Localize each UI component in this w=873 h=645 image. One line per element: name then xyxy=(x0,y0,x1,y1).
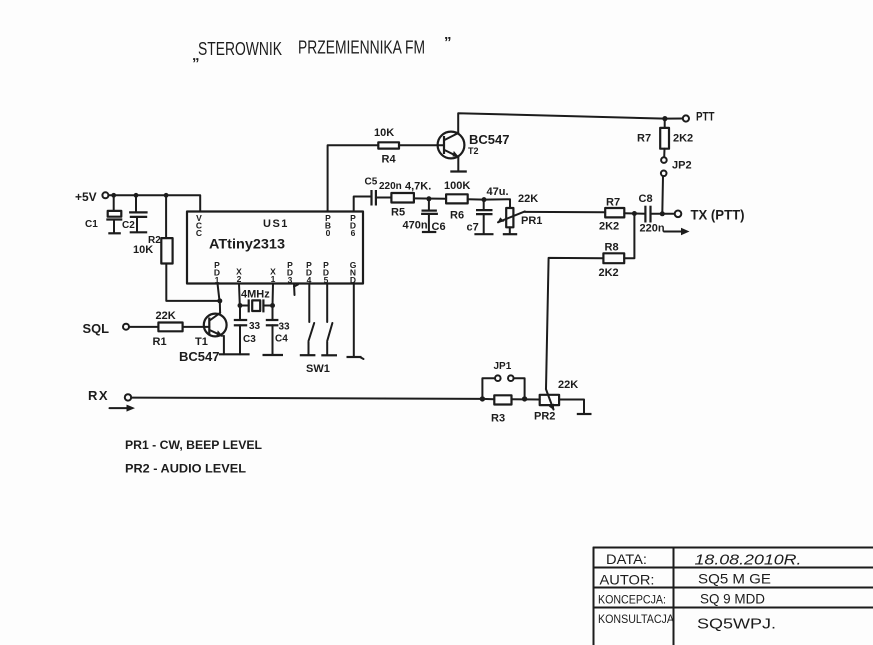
resistor R2 xyxy=(161,238,172,263)
svg-text:TX (PTT): TX (PTT) xyxy=(691,207,745,223)
potentiometer PR2 xyxy=(540,389,559,410)
arrow TX direction xyxy=(664,228,690,235)
svg-text:C8: C8 xyxy=(639,193,653,205)
svg-text:SQ 9 MDD: SQ 9 MDD xyxy=(700,591,765,607)
resistor R5 xyxy=(391,193,414,203)
svg-text:PR2 - AUDIO LEVEL: PR2 - AUDIO LEVEL xyxy=(125,462,246,476)
resistor R8 xyxy=(603,253,624,263)
svg-text:6: 6 xyxy=(351,228,356,238)
svg-text:C4: C4 xyxy=(275,334,288,345)
+5V terminal xyxy=(102,192,108,198)
resistor R7 vertical xyxy=(660,128,669,149)
wire C7 top xyxy=(483,200,485,210)
wire R7v bottom to JP2 xyxy=(663,149,665,158)
svg-text:US1: US1 xyxy=(263,218,289,230)
resistor R7 horizontal xyxy=(605,208,624,217)
svg-text:”: ” xyxy=(444,34,452,51)
wire T2 collector up to PTT rail xyxy=(458,113,665,133)
svg-text:c7: c7 xyxy=(467,222,479,234)
pin X2 xyxy=(236,267,242,285)
svg-text:ATtiny2313: ATtiny2313 xyxy=(209,237,286,252)
wire C4 top xyxy=(272,306,274,320)
wire R4 to T2 base xyxy=(399,144,444,146)
capacitor C3 xyxy=(234,320,247,354)
wire RX line xyxy=(131,398,482,399)
node RX/R3/JP1 left xyxy=(480,396,485,401)
wire +5V rail xyxy=(109,195,201,211)
svg-text:C6: C6 xyxy=(432,221,446,233)
wire X2 down xyxy=(238,284,241,306)
wire PB0 to R4 xyxy=(328,145,379,211)
wire to PTT terminal xyxy=(665,118,683,120)
svg-text:RX: RX xyxy=(88,388,109,403)
wire PR1 wiper to R7h xyxy=(525,211,605,213)
svg-text:C5: C5 xyxy=(365,177,378,188)
svg-text:100K: 100K xyxy=(444,180,470,192)
svg-text:2K2: 2K2 xyxy=(599,267,619,279)
ground C7 xyxy=(474,233,493,235)
svg-text:KONCEPCJA:: KONCEPCJA: xyxy=(598,595,666,607)
svg-text:C: C xyxy=(196,228,202,238)
svg-text:4MHz: 4MHz xyxy=(241,289,270,301)
wire T2 emitter to ground xyxy=(457,157,459,172)
svg-text:C2: C2 xyxy=(122,220,135,231)
svg-text:22K: 22K xyxy=(518,193,538,205)
pin PD4 xyxy=(306,260,312,285)
terminal PTT xyxy=(683,115,689,121)
node X2/crystal/C3 xyxy=(238,303,243,308)
svg-text:SQ5WPJ.: SQ5WPJ. xyxy=(697,617,776,633)
node +5V/C1 xyxy=(111,193,116,198)
wire C3 top xyxy=(239,306,241,320)
svg-text:4,7K.: 4,7K. xyxy=(405,181,431,193)
ground C4 xyxy=(263,354,284,356)
capacitor C6 xyxy=(421,211,438,231)
svg-text:BC547: BC547 xyxy=(179,349,219,364)
wire PD3 stub xyxy=(294,284,298,296)
svg-text:R8: R8 xyxy=(605,242,619,254)
svg-text:PRZEMIENNIKA FM: PRZEMIENNIKA FM xyxy=(298,38,425,58)
svg-text:SQL: SQL xyxy=(83,321,110,336)
svg-text:470n: 470n xyxy=(403,220,428,232)
transistor T2 xyxy=(438,132,465,159)
node +5V/C2 xyxy=(134,193,139,198)
svg-text:3: 3 xyxy=(288,275,293,285)
wire R8 to TX node xyxy=(624,214,634,259)
svg-text:R4: R4 xyxy=(382,154,397,166)
node R7h/R8/C8 xyxy=(632,211,637,216)
svg-text:PR1: PR1 xyxy=(521,215,542,227)
svg-text:JP2: JP2 xyxy=(672,160,692,172)
wire R8 left to PR2 wiper xyxy=(546,258,603,389)
svg-text:18.08.2010R.: 18.08.2010R. xyxy=(695,552,802,569)
wire R5 to node1 xyxy=(414,197,446,199)
jumper JP1 xyxy=(482,375,524,398)
terminal TX xyxy=(675,211,682,218)
pin PB0 xyxy=(325,213,331,238)
svg-text:33: 33 xyxy=(279,322,291,333)
ground T2 xyxy=(450,170,467,172)
svg-text:22K: 22K xyxy=(558,379,578,391)
wire R1 to T1 base xyxy=(183,326,210,328)
ground T1/C3 xyxy=(219,353,250,355)
svg-text:JP1: JP1 xyxy=(494,361,512,372)
ground C2 xyxy=(130,231,148,233)
svg-text:2K2: 2K2 xyxy=(673,133,693,145)
svg-text:R7: R7 xyxy=(606,197,620,209)
crystal Q1 4MHz xyxy=(240,299,273,312)
resistor R6 xyxy=(446,194,468,203)
svg-text:T1: T1 xyxy=(195,336,208,348)
ground PR1 xyxy=(503,233,517,235)
svg-text:1: 1 xyxy=(271,274,276,284)
node X1/crystal/C4 xyxy=(270,303,275,308)
wire R2 top xyxy=(165,195,167,238)
resistor R1 xyxy=(158,323,182,332)
svg-text:0: 0 xyxy=(326,228,331,238)
node +5V/R2 xyxy=(164,193,169,198)
svg-text:10K: 10K xyxy=(374,127,394,139)
wire R3 to PR2 xyxy=(512,398,540,400)
ground C1 xyxy=(108,232,121,234)
arrow RX direction xyxy=(110,405,136,412)
capacitor C2 xyxy=(129,212,148,231)
wire C1 top xyxy=(113,195,115,211)
ground SW1a xyxy=(300,354,316,356)
svg-text:T2: T2 xyxy=(468,146,479,156)
svg-text:R6: R6 xyxy=(450,210,464,222)
wire PD1 down xyxy=(218,284,220,301)
node R3/JP1 right xyxy=(522,396,527,401)
node T1 collector / PD1 xyxy=(217,298,222,303)
svg-text:SW1: SW1 xyxy=(306,363,330,375)
wire JP2 to TX node xyxy=(661,176,664,214)
svg-text:KONSULTACJA: KONSULTACJA xyxy=(598,614,674,626)
svg-text:2K2: 2K2 xyxy=(599,221,619,233)
svg-text:+5V: +5V xyxy=(75,190,97,204)
wire PD6 to C5 xyxy=(354,197,372,212)
svg-text:47u.: 47u. xyxy=(487,186,509,198)
wire R6 to node2 xyxy=(468,198,484,200)
switch SW1b xyxy=(327,284,332,355)
potentiometer PR1 xyxy=(498,208,525,233)
node TX/JP2 xyxy=(660,211,665,216)
capacitor C7 xyxy=(476,210,493,233)
svg-text:C1: C1 xyxy=(85,219,98,230)
ground GND pin xyxy=(347,357,364,359)
terminal RX xyxy=(125,394,131,400)
wire R7v top xyxy=(664,119,666,128)
svg-text:STEROWNIK: STEROWNIK xyxy=(198,39,282,59)
pin VCC xyxy=(196,213,202,238)
wire C8 to TX terminal xyxy=(651,213,675,215)
wire R2 bottom to T1 collector node xyxy=(166,264,219,301)
pin PD1 xyxy=(214,260,220,285)
pin PD5 xyxy=(323,260,329,285)
wire T1 emitter to ground xyxy=(223,336,225,354)
wire SQL to R1 xyxy=(129,326,158,328)
pin PD3 xyxy=(287,260,293,285)
wire RX node to R3 xyxy=(482,398,494,400)
svg-text:PR2: PR2 xyxy=(534,411,555,423)
wire GND pin down xyxy=(353,284,355,357)
svg-text:R1: R1 xyxy=(153,336,167,348)
svg-text:BC547: BC547 xyxy=(469,132,509,147)
svg-text:22K: 22K xyxy=(156,310,176,322)
title STEROWNIK PRZEMIENNIKA FM xyxy=(192,34,452,64)
svg-text:220n: 220n xyxy=(640,223,665,235)
svg-text:2: 2 xyxy=(237,274,242,284)
svg-text:DATA:: DATA: xyxy=(606,551,647,567)
svg-text:R7: R7 xyxy=(637,133,651,145)
ground SW1b xyxy=(321,354,337,356)
svg-text:R5: R5 xyxy=(391,207,405,219)
wire C6 top xyxy=(428,199,430,211)
node PTT junction xyxy=(662,116,667,121)
capacitor C8 xyxy=(645,206,650,223)
wire node2 to PR1 top xyxy=(484,199,510,208)
resistor R4 xyxy=(378,142,399,148)
node R6/C7/PR1 xyxy=(482,197,487,202)
jumper JP2 xyxy=(661,157,667,176)
pin GND xyxy=(350,260,357,285)
op IC U1 box xyxy=(187,212,363,284)
capacitor C1 xyxy=(106,211,122,233)
node R5/C6/R6 xyxy=(426,196,431,201)
svg-text:33: 33 xyxy=(249,321,261,332)
transistor T1 xyxy=(204,313,227,337)
capacitor C5 xyxy=(372,190,376,206)
svg-text:„: „ xyxy=(192,47,200,64)
resistor R3 xyxy=(494,395,511,404)
svg-text:220n: 220n xyxy=(379,181,402,192)
pin X1 xyxy=(270,267,276,285)
ground C6 xyxy=(422,231,436,233)
svg-text:AUTOR:: AUTOR: xyxy=(600,572,655,588)
capacitor C4 xyxy=(266,320,279,355)
wire C2 top xyxy=(135,195,137,212)
switch SW1a xyxy=(309,284,315,355)
svg-text:R3: R3 xyxy=(491,413,505,425)
svg-text:SQ5 M GE: SQ5 M GE xyxy=(698,571,771,587)
svg-text:C3: C3 xyxy=(243,334,256,345)
svg-text:10K: 10K xyxy=(133,244,153,256)
wire C5 to R5 xyxy=(376,197,392,199)
wire T1 collector xyxy=(219,301,221,313)
terminal SQL xyxy=(123,324,129,330)
table frame xyxy=(594,548,873,645)
ground PR2 xyxy=(577,413,592,415)
wire PR2 right to ground xyxy=(559,400,584,414)
svg-text:PR1 - CW, BEEP LEVEL: PR1 - CW, BEEP LEVEL xyxy=(125,438,262,452)
wire X1 down xyxy=(272,284,275,306)
pin PD6 xyxy=(350,213,356,238)
svg-text:PTT: PTT xyxy=(696,110,715,124)
wire R7h to C8 node xyxy=(624,212,645,214)
